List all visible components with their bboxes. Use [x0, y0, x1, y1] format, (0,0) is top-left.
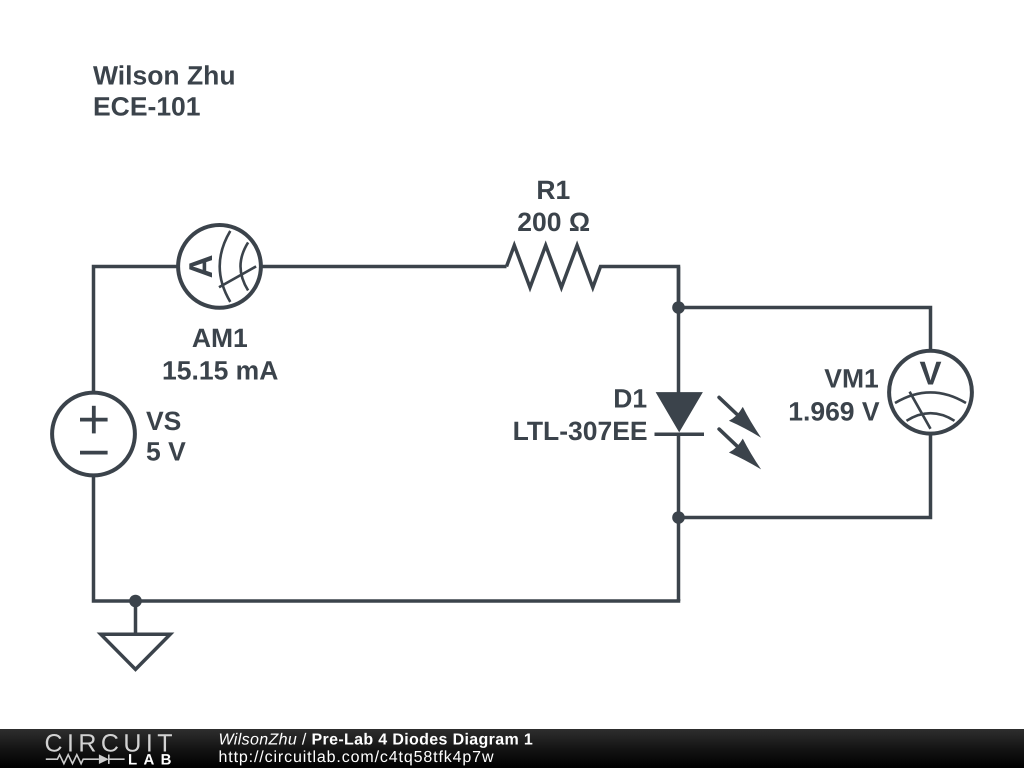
svg-text:5 V: 5 V — [146, 436, 186, 466]
svg-text:V: V — [919, 355, 941, 392]
svg-text:ECE-101: ECE-101 — [93, 91, 201, 121]
svg-text:R1: R1 — [536, 175, 570, 205]
svg-text:200 Ω: 200 Ω — [517, 207, 590, 237]
svg-text:1.969 V: 1.969 V — [788, 396, 880, 426]
svg-text:A: A — [182, 254, 219, 278]
svg-text:LAB: LAB — [128, 752, 174, 768]
svg-text:Wilson Zhu: Wilson Zhu — [93, 61, 236, 91]
svg-text:D1: D1 — [613, 384, 647, 414]
svg-text:15.15 mA: 15.15 mA — [162, 356, 278, 386]
svg-text:VM1: VM1 — [824, 363, 879, 393]
svg-text:http://circuitlab.com/c4tq58tf: http://circuitlab.com/c4tq58tfk4p7w — [219, 749, 494, 766]
svg-text:VS: VS — [146, 406, 181, 436]
svg-text:WilsonZhu / Pre-Lab 4 Diodes D: WilsonZhu / Pre-Lab 4 Diodes Diagram 1 — [219, 731, 534, 748]
svg-text:AM1: AM1 — [192, 323, 248, 353]
svg-text:LTL-307EE: LTL-307EE — [513, 416, 648, 446]
